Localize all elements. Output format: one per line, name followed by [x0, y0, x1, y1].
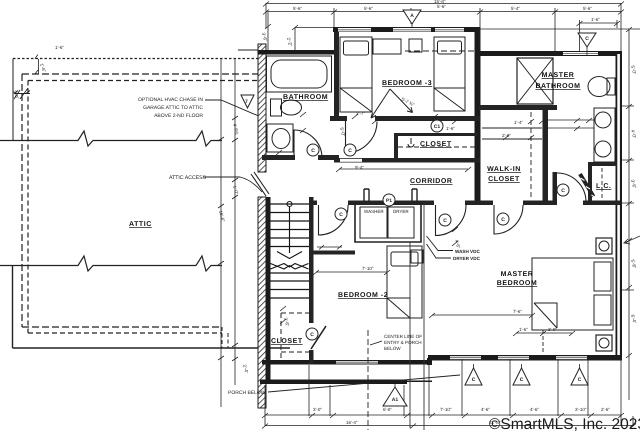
- svg-text:C: C: [472, 377, 476, 383]
- window: divider small gap: [335, 145, 338, 158]
- opening: walkin door: [493, 201, 523, 206]
- svg-text:9'-4": 9'-4": [355, 165, 364, 170]
- opening: bedroom2 door: [317, 201, 348, 206]
- svg-text:5'-4": 5'-4": [511, 6, 520, 11]
- bed3 left pillow: [344, 41, 369, 55]
- wall: stair right lower: [309, 350, 314, 364]
- STAIRS: [271, 202, 310, 299]
- wall: bath/bed3 divider: [334, 32, 339, 116]
- fixture: mbath sink 2: [595, 141, 611, 157]
- stair treads lower: [271, 273, 310, 298]
- wall: bed3/mbath divider full: [475, 27, 481, 205]
- fixture: bath toilet tank: [271, 99, 282, 116]
- dim: bottom extension verticals: [265, 359, 633, 426]
- svg-text:BEDROOM: BEDROOM: [497, 280, 537, 287]
- ATTIC LEFT REGION: [0, 50, 290, 348]
- wall: right exterior: [616, 51, 623, 361]
- svg-text:BATHROOM: BATHROOM: [283, 94, 328, 101]
- svg-text:3'-0": 3'-0": [548, 327, 557, 332]
- svg-text:C: C: [561, 188, 565, 194]
- wall: bedroom2 bottom: [262, 360, 432, 365]
- dim: bed3 inner ticks: [352, 114, 458, 124]
- triangle tag B: [241, 95, 254, 108]
- fixture: mbath toilet tank: [607, 78, 615, 95]
- tag circle mbr C: [439, 214, 451, 226]
- svg-text:2'-0": 2'-0": [502, 133, 511, 138]
- eave dim ticks top-left: [35, 55, 39, 75]
- svg-text:5'-6": 5'-6": [437, 4, 446, 9]
- window: bedroom-3 top left: [338, 28, 371, 32]
- roof dashed left vertical A: [21, 74, 23, 327]
- wall: left exterior (hatched) lower: [258, 197, 266, 408]
- fixture: nightstand 1: [596, 238, 612, 254]
- garage attic bottom line: [13, 347, 291, 349]
- fixture: bath toilet bowl: [281, 100, 302, 115]
- svg-text:7'-10": 7'-10": [362, 266, 374, 271]
- wall: bathroom top: [258, 50, 339, 55]
- svg-text:CLOSET: CLOSET: [271, 338, 303, 345]
- note OPTIONAL HVAC CHASE: [138, 97, 203, 119]
- stair treads upper: [271, 204, 310, 247]
- wall: landing south stub: [309, 251, 355, 255]
- svg-text:1'-6": 1'-6": [446, 126, 455, 131]
- fixture: bed2 nightstand: [411, 250, 423, 263]
- shower X: [517, 58, 553, 104]
- roof dashed left vertical B: [27, 81, 29, 334]
- attic floor upper break line: [0, 131, 222, 146]
- door: walk-in leaf+arc: [494, 205, 523, 234]
- fixture: bathtub inner: [271, 60, 327, 88]
- svg-text:DRYER: DRYER: [393, 209, 409, 214]
- master fold: [534, 303, 557, 328]
- dim: top ticks: [263, 2, 624, 15]
- door: master bedroom leaf+arc: [436, 205, 467, 236]
- svg-text:BEDROOM -2: BEDROOM -2: [338, 292, 388, 299]
- svg-text:C: C: [339, 212, 343, 218]
- DOORS: [294, 121, 596, 236]
- svg-text:2'-6": 2'-6": [601, 407, 610, 412]
- fixture: master bed: [532, 258, 613, 330]
- dim: bottom row2 line: [265, 425, 633, 427]
- wall: corridor bottom: [311, 201, 620, 206]
- window line bed3 top: [393, 29, 431, 31]
- dim: right top horizontal: [479, 28, 640, 30]
- svg-text:7'-10": 7'-10": [440, 407, 452, 412]
- wall: bath bottom: [262, 155, 295, 160]
- window: bottom 2: [498, 356, 529, 359]
- opening in corridor top: [340, 159, 362, 162]
- wall: bottom right exterior: [428, 355, 621, 361]
- GARAGE DIM COLUMN: [218, 58, 238, 407]
- svg-text:1'-6": 1'-6": [519, 327, 528, 332]
- svg-text:C: C: [443, 218, 447, 224]
- closet bottom-left dashed outline: [251, 112, 602, 364]
- dim extension line x235: [234, 58, 236, 385]
- triangle tag A top: [403, 10, 421, 24]
- wall: master bath bottom: [479, 105, 557, 110]
- svg-text:L.C.: L.C.: [596, 183, 611, 190]
- fixture: shower stall: [517, 58, 553, 104]
- svg-text:A: A: [410, 13, 414, 19]
- svg-text:1'-4": 1'-4": [514, 120, 523, 125]
- tag circle bed3 C: [344, 144, 356, 156]
- fixture: washer dryer closet: [355, 203, 421, 242]
- door: linen closet arc: [557, 173, 586, 202]
- fixture: bed3 right bed: [434, 37, 465, 111]
- bed3 closet hanger symbol: [408, 138, 414, 147]
- wall: connector at x428: [427, 358, 432, 365]
- svg-text:C1: C1: [434, 124, 441, 130]
- triangle tag C bottom 3: [571, 368, 588, 385]
- tag circle closet C1: [431, 120, 443, 132]
- svg-text:C: C: [310, 332, 314, 338]
- svg-text:6'-8": 6'-8": [383, 407, 392, 412]
- fixture: nightstand 2: [596, 335, 612, 351]
- svg-text:MASTER: MASTER: [542, 72, 575, 79]
- svg-text:BELOW: BELOW: [384, 346, 401, 351]
- opening: lc hall: [557, 201, 583, 206]
- svg-text:1'-6": 1'-6": [591, 17, 600, 22]
- svg-text:CORRIDOR: CORRIDOR: [410, 178, 453, 185]
- bed3 dashed ceiling line: [405, 50, 477, 52]
- svg-text:C: C: [348, 148, 352, 154]
- dim: top extension verticals: [266, 3, 621, 51]
- long centerline vertical 1: [409, 242, 411, 428]
- svg-text:4'-6": 4'-6": [530, 407, 539, 412]
- fixture: vanity counter: [594, 108, 615, 162]
- tag circle lc C: [557, 184, 569, 196]
- wall: bedroom-3 top: [333, 27, 479, 32]
- svg-text:C: C: [311, 148, 315, 154]
- wall: closet left jamb: [394, 133, 398, 159]
- window: bedroom-3 top right: [435, 28, 464, 32]
- window line mbath top: [563, 53, 598, 55]
- svg-text:7'-6": 7'-6": [513, 309, 522, 314]
- svg-text:WASH VDC: WASH VDC: [455, 249, 480, 254]
- walkin shelf line 1: [482, 127, 542, 129]
- TRIANGLE TAGS: [383, 10, 596, 406]
- svg-text:©SmartMLS, Inc. 2023: ©SmartMLS, Inc. 2023: [489, 416, 640, 433]
- bed3 dresser: [373, 39, 401, 54]
- triangle letters: [392, 13, 589, 403]
- svg-text:ABOVE 2-ND FLOOR: ABOVE 2-ND FLOOR: [154, 113, 203, 119]
- DOOR TAG CIRCLES: [306, 120, 569, 340]
- svg-text:1'-6": 1'-6": [55, 45, 64, 50]
- porch leader: [268, 375, 460, 392]
- window lines bottom: [450, 357, 481, 359]
- svg-text:C: C: [501, 217, 505, 223]
- eave dim ticks left: [14, 88, 30, 99]
- svg-text:7: 7: [245, 99, 248, 105]
- wall: stair block left: [266, 197, 271, 383]
- svg-text:PORCH BELOW: PORCH BELOW: [228, 390, 266, 396]
- svg-text:DRYER VDC: DRYER VDC: [453, 256, 481, 261]
- dim: bath top verticals: [268, 12, 295, 50]
- porch dashed connector: [222, 327, 228, 348]
- dim: bath inner ticks: [276, 112, 306, 155]
- dim: right column line: [628, 29, 630, 400]
- opening: mbr door: [434, 201, 465, 206]
- door: linen closet hatched leaf: [580, 174, 594, 197]
- vanity dim ticks: [574, 118, 592, 131]
- centerline dashed vertical: [367, 330, 369, 430]
- svg-text:GARAGE ATTIC TO ATTIC: GARAGE ATTIC TO ATTIC: [143, 105, 203, 111]
- svg-text:5'-6": 5'-6": [364, 6, 373, 11]
- dim: corridor line: [339, 168, 468, 170]
- wall: porch thick bottom: [260, 380, 407, 385]
- bed3 leader arrow left: [371, 89, 390, 118]
- tag circle closet bl C: [306, 328, 318, 340]
- attic floor lower break line: [0, 256, 222, 271]
- roof eave short line: [238, 49, 258, 51]
- wall: closet top (bed3): [394, 133, 478, 136]
- attic access door leaf: [251, 172, 269, 196]
- hvac leader: [205, 100, 261, 117]
- door: bathroom leaf+arc: [294, 130, 322, 158]
- triangle tag C bottom 2: [513, 368, 530, 385]
- svg-text:16'-4": 16'-4": [346, 420, 358, 425]
- dim: right ticks: [626, 27, 632, 358]
- dim: top overall line: [266, 3, 621, 5]
- window: bottom 1: [450, 356, 481, 359]
- roof overhang dashed line B: [28, 80, 258, 82]
- tag circle bathroom C: [307, 144, 319, 156]
- tiny dimension labels: [261, 0, 637, 425]
- dim: right extension lines: [622, 106, 634, 290]
- garage attic top roof line: [13, 58, 258, 60]
- fixture: bath sink: [272, 129, 290, 149]
- INTERIOR WALLS: [262, 32, 620, 364]
- stair break bowtie: [271, 264, 309, 270]
- svg-text:ENTRY & PORCH: ENTRY & PORCH: [384, 340, 422, 345]
- vent pipe 1: [364, 189, 369, 202]
- wall: bath bottom right part: [318, 155, 339, 160]
- svg-text:5'-6": 5'-6": [293, 6, 302, 11]
- master pillow 1: [594, 262, 611, 291]
- porch thin line: [407, 381, 432, 383]
- master pillow 2: [594, 295, 611, 325]
- window: master bath top: [563, 52, 598, 55]
- bed3 left fold: [340, 88, 372, 112]
- DIMENSION LINES: [262, 2, 640, 429]
- svg-text:C: C: [578, 377, 582, 383]
- svg-text:ATTIC ACCESS: ATTIC ACCESS: [169, 175, 207, 181]
- door: bedroom3 leaf+arc: [346, 121, 378, 153]
- mbed dim dashed vertical: [542, 330, 544, 352]
- note CENTER LINE: [384, 334, 422, 351]
- bed3 right pillow: [438, 41, 462, 54]
- dim: master bedroom line: [432, 314, 532, 316]
- roof dashed bottom B: [28, 332, 222, 334]
- wall: walkin right: [543, 105, 549, 203]
- svg-text:WASHER: WASHER: [364, 209, 384, 214]
- dim: stairs bottom ticks: [280, 227, 458, 324]
- triangle tag A1: [383, 387, 407, 406]
- vdc leaders: [427, 236, 454, 258]
- closet dashed box: [281, 313, 309, 364]
- fixture: bathtub outer: [267, 56, 332, 92]
- walkin shelf line 2: [482, 138, 542, 140]
- wall: lc left: [588, 162, 592, 205]
- svg-text:C: C: [585, 36, 589, 42]
- dim: bottom row1 line: [265, 414, 621, 416]
- svg-text:3'-0": 3'-0": [313, 407, 322, 412]
- tag circle P1: [383, 194, 395, 206]
- fixture: mbath toilet bowl: [588, 77, 610, 97]
- svg-text:ATTIC: ATTIC: [129, 221, 152, 228]
- vent pipe 2: [412, 189, 417, 202]
- bed3 closet rod dashed: [398, 146, 477, 148]
- bed3 dresser 2: [409, 39, 422, 52]
- svg-text:BATHROOM: BATHROOM: [535, 83, 580, 90]
- svg-text:BEDROOM -3: BEDROOM -3: [382, 80, 432, 87]
- window: bottom 3: [556, 356, 587, 359]
- wall: stair right: [309, 197, 314, 323]
- roof overhang dashed line A: [22, 73, 258, 75]
- vanity dim lines: [548, 120, 594, 128]
- window frame lines: [336, 30, 598, 362]
- wall: lc hall stub: [553, 172, 558, 203]
- roof dashed bottom A: [22, 326, 222, 328]
- lc rod dashed vertical: [601, 168, 603, 203]
- tag circle walkin C: [497, 213, 509, 225]
- stair down arrow: [277, 207, 302, 259]
- stair top circle: [287, 202, 292, 207]
- tag letters: [310, 124, 565, 338]
- dim: top row2 line: [266, 11, 621, 13]
- EXTERIOR WALLS: [258, 27, 622, 408]
- triangle tag C bottom 1: [465, 368, 482, 385]
- dim: bottom ticks row2: [262, 424, 636, 429]
- wall: corridor top: [334, 158, 480, 163]
- svg-text:3'-7": 3'-7": [356, 111, 365, 116]
- wall: lc top: [591, 162, 617, 166]
- bed3 leader arrow right: [390, 89, 413, 113]
- wall: master bath top: [479, 51, 620, 56]
- dryer box: [388, 207, 414, 238]
- closet dashed rod: [281, 351, 309, 353]
- tag circle corridor left C: [335, 208, 347, 220]
- door: bedroom2 leaf+arc: [319, 205, 349, 235]
- triangle leader lines: [395, 24, 587, 387]
- dim: 1-6 line top right: [580, 22, 618, 24]
- svg-text:4'-6": 4'-6": [481, 407, 490, 412]
- svg-text:MASTER: MASTER: [501, 271, 534, 278]
- fixture: bath vanity: [267, 124, 293, 152]
- bed2 fold: [387, 298, 410, 318]
- window: bedroom-3 top: [393, 28, 431, 32]
- wall: left exterior (hatched) upper: [258, 44, 266, 172]
- fixture: mbath sink 1: [595, 112, 611, 128]
- dim: bedroom2 line: [316, 271, 387, 273]
- dim: bottom ticks row1: [262, 413, 624, 418]
- garage attic left wall lower: [12, 266, 14, 348]
- svg-text:WALK-IN: WALK-IN: [487, 166, 521, 173]
- svg-text:5'-6": 5'-6": [583, 6, 592, 11]
- dim: bath width line: [295, 27, 334, 29]
- long centerline vertical 2: [423, 203, 425, 430]
- closet door leaf: [311, 326, 326, 349]
- dim: mbed ticks small: [513, 331, 575, 336]
- bed3 right fold: [434, 88, 465, 111]
- fixture: bed2 bed: [387, 246, 422, 318]
- walkin rod dashed vertical: [530, 112, 532, 200]
- triangle tag C mbath top: [578, 33, 596, 47]
- dim extension line x221: [220, 58, 222, 407]
- svg-text:3'-10": 3'-10": [575, 407, 587, 412]
- FIXTURES: [267, 37, 616, 351]
- svg-text:A1: A1: [392, 397, 399, 403]
- attic access leader: [203, 177, 262, 192]
- svg-text:CLOSET: CLOSET: [420, 141, 452, 148]
- window: bedroom2 bottom: [336, 361, 378, 364]
- svg-text:CLOSET: CLOSET: [488, 176, 520, 183]
- dim: walkin small ticks: [503, 119, 545, 140]
- tick marks column: [218, 116, 238, 361]
- centerline leader: [370, 341, 382, 345]
- wall: bedroom-3 bottom right seg: [375, 116, 480, 121]
- dim: right leader arrow: [624, 236, 640, 244]
- svg-text:P1: P1: [386, 198, 392, 204]
- bed2 pillow: [391, 252, 418, 266]
- svg-text:CENTER LINE OF: CENTER LINE OF: [384, 334, 422, 339]
- svg-text:OPTIONAL HVAC CHASE IN: OPTIONAL HVAC CHASE IN: [138, 97, 203, 103]
- svg-text:C: C: [520, 377, 524, 383]
- wall: bedroom-3 bottom left seg: [330, 116, 347, 121]
- garage attic left wall upper: [12, 59, 14, 142]
- fixture: bed3 left bed: [340, 37, 372, 112]
- washer box: [360, 207, 387, 238]
